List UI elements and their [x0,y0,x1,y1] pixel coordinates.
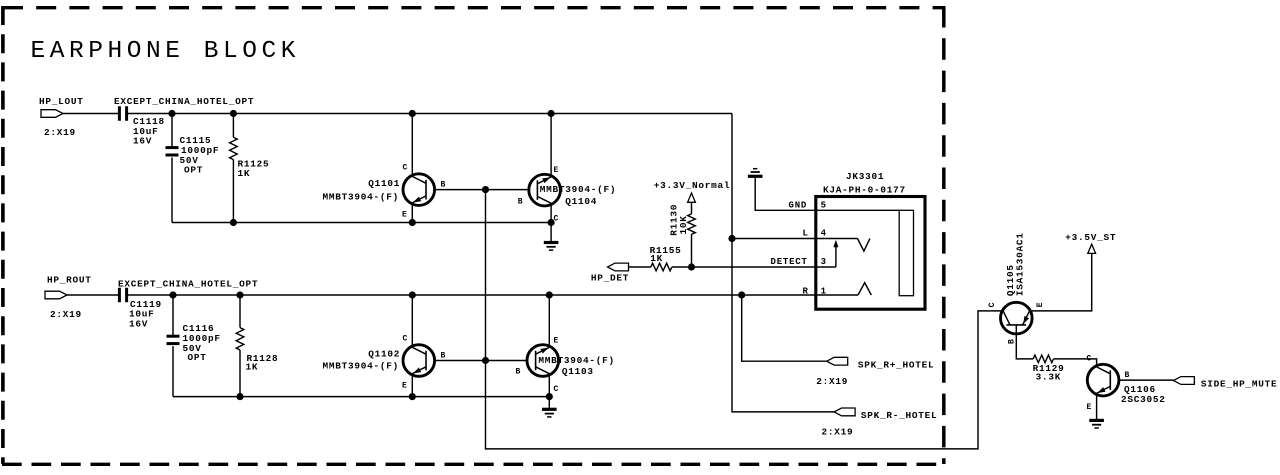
svg-text:OPT: OPT [188,352,207,363]
node junction bottom rail / Q1103 C [546,393,553,400]
node junction bottom rail / Q1101 E [409,219,416,226]
svg-text:JK3301: JK3301 [846,171,884,182]
svg-text:E: E [1087,403,1092,412]
node junction lower rail / R1128 [236,291,243,298]
port SPK_R-_HOTEL [822,408,938,437]
dashed block border left [1,6,5,464]
svg-text:L: L [803,229,809,239]
pin label C Q1104 [554,215,559,224]
pin label C Q1106 [1087,355,1092,364]
power +3.3V_Normal [654,180,731,203]
node junction lower rail / Q1103 E [546,291,553,298]
wire Q1103 emitter [548,295,550,347]
svg-text:Q1102: Q1102 [368,349,400,360]
svg-text:R: R [803,287,809,297]
capacitor C1116 [167,323,221,363]
svg-text:SPK_R-_HOTEL: SPK_R-_HOTEL [861,410,938,421]
svg-text:EARPHONE BLOCK: EARPHONE BLOCK [31,38,301,65]
transistor Q1105 [1001,302,1033,334]
value MMBT3904-(F) Q1103 [538,355,615,366]
pin number 1 [821,287,827,297]
node junction bases top [482,186,489,193]
svg-text:SIDE_HP_MUTE: SIDE_HP_MUTE [1201,378,1278,389]
value 2SC3052 Q1106 [1121,394,1166,405]
pin label B Q1102 [441,352,446,361]
node junction lower rail / C1116 [169,291,176,298]
wire C1115 branch [171,114,173,223]
svg-text:4: 4 [821,229,827,239]
node junction lower rail / Q1102 C [409,291,416,298]
net label EXCEPT_CHINA_HOTEL_OPT (top) [114,96,254,107]
svg-text:MMBT3904-(F): MMBT3904-(F) [323,361,400,372]
wire Q1102 collector [411,295,413,348]
svg-text:B: B [441,181,446,190]
svg-text:+3.3V_Normal: +3.3V_Normal [654,180,731,191]
svg-text:Q1101: Q1101 [368,178,400,189]
resistor R1125 [230,114,270,223]
wire L to jack pin 4 [732,238,858,240]
pin number 3 [821,257,827,267]
pin label E Q1105 [1036,302,1045,307]
svg-text:16V: 16V [133,135,152,146]
svg-text:B: B [518,198,523,207]
node junction bottom rail / R1128 [236,393,243,400]
node junction lower rail / SPK_R+ [738,291,745,298]
svg-text:3.3K: 3.3K [1036,371,1062,382]
ground above jack GND [748,169,763,177]
power +3.5V_ST [1065,232,1116,254]
wire HP_ROUT to C1119 [67,294,118,296]
label Q1101 [368,178,400,189]
dashed block border top [3,6,945,9]
dashed block border right [942,6,946,464]
label JK3301 [846,171,884,182]
svg-text:1K: 1K [246,362,259,373]
svg-text:DETECT: DETECT [771,257,808,267]
svg-text:EXCEPT_CHINA_HOTEL_OPT: EXCEPT_CHINA_HOTEL_OPT [114,96,254,107]
wire R1155 to jack pin 3 [672,266,836,268]
node junction top rail / Q1101 C [409,110,416,117]
value KJA-PH-0-0177 [823,185,906,196]
pin label C Q1105 [988,302,997,307]
svg-text:HP_LOUT: HP_LOUT [39,96,84,107]
label Q1102 [368,349,400,360]
svg-text:E: E [402,211,407,220]
label Q1106 [1124,384,1156,395]
svg-text:B: B [441,352,446,361]
svg-text:5: 5 [821,201,827,211]
resistor R1129 [1033,355,1065,382]
svg-text:C: C [1087,355,1092,364]
node junction L branch [728,235,735,242]
svg-text:C: C [988,302,997,307]
transistor Q1106 [1087,364,1119,396]
svg-text:B: B [1125,371,1130,380]
wire Q1101 emitter [411,203,413,223]
wire Q1101 collector [411,114,413,177]
svg-text:Q1103: Q1103 [562,366,594,377]
svg-text:2SC3052: 2SC3052 [1121,394,1166,405]
pin number 5 [821,201,827,211]
node junction bottom rail / R1125 [230,219,237,226]
wire Q1101 base to Q1104 base [435,189,528,191]
pin label B Q1103 [516,368,521,377]
svg-text:10K: 10K [678,215,689,234]
node junction bases bottom [482,357,489,364]
svg-text:B: B [1008,339,1017,344]
wire top channel bottom rail [172,222,551,224]
svg-text:1K: 1K [650,253,663,264]
value ISA1530AC1 Q1105 [1014,232,1025,296]
svg-text:MMBT3904-(F): MMBT3904-(F) [538,355,615,366]
svg-text:HP_DET: HP_DET [591,272,629,283]
net label EXCEPT_CHINA_HOTEL_OPT (bottom) [118,278,258,289]
wire lower rail [128,294,816,296]
port SPK_R+_HOTEL [816,357,934,387]
value MMBT3904-(F) Q1104 [540,184,617,195]
jack sleeve bar [899,210,913,295]
pin label B Q1106 [1125,371,1130,380]
transistor Q1101 [403,174,435,206]
node junction DETECT / R1130 [688,263,695,270]
pin label B Q1105 [1008,339,1017,344]
svg-text:B: B [516,368,521,377]
node junction top rail / R1125 [230,110,237,117]
wire HP_DET to R1155 [629,266,651,268]
svg-text:16V: 16V [129,319,148,330]
wire lower channel bottom rail [173,396,549,398]
wire Q1106 emitter [1096,393,1098,420]
pin label E Q1102 [402,382,407,391]
svg-text:E: E [402,382,407,391]
port HP_DET [591,263,629,283]
svg-text:2:X19: 2:X19 [822,426,854,437]
svg-text:3: 3 [821,257,827,267]
pin label E Q1106 [1087,403,1092,412]
capacitor C1115 [166,135,220,176]
svg-text:C: C [403,164,408,173]
svg-text:2:X19: 2:X19 [816,376,848,387]
pin label E Q1104 [554,166,559,175]
pin label C Q1101 [403,164,408,173]
svg-text:MMBT3904-(F): MMBT3904-(F) [323,191,400,202]
pin label B Q1104 [518,198,523,207]
wire Q1102 base to Q1103 base [435,360,528,362]
svg-text:E: E [1036,302,1045,307]
svg-text:SPK_R+_HOTEL: SPK_R+_HOTEL [858,360,935,371]
wire Q1105 base [1016,325,1033,359]
capacitor C1119 [119,288,161,330]
pin label DETECT [771,257,808,267]
title EARPHONE BLOCK [31,38,301,65]
port HP_ROUT [45,275,92,321]
dashed block border bottom [2,463,945,466]
wire Q1105 emitter to +3.5V [1030,253,1092,311]
pin number 4 [821,229,827,239]
svg-text:KJA-PH-0-0177: KJA-PH-0-0177 [823,185,906,196]
pin label E Q1103 [554,337,559,346]
svg-text:+3.5V_ST: +3.5V_ST [1065,232,1116,243]
svg-text:MMBT3904-(F): MMBT3904-(F) [540,184,617,195]
wire Q1106 base to SIDE_HP_MUTE [1119,379,1173,381]
svg-text:C: C [554,385,559,394]
transistor Q1102 [403,345,435,377]
ground below Q1104 [544,243,559,251]
port SIDE_HP_MUTE [1173,377,1277,390]
jack detect switch arrow [833,240,838,267]
svg-text:Q1104: Q1104 [565,196,597,207]
node junction bottom rail / Q1104 C [548,219,555,226]
svg-text:GND: GND [789,201,808,211]
svg-text:1K: 1K [238,168,251,179]
wire R1129 to Q1106 collector [1054,359,1097,365]
transistor Q1104 [529,174,561,206]
connector JK3301 box [816,197,925,310]
svg-text:2:X19: 2:X19 [50,309,82,320]
svg-text:C: C [403,335,408,344]
label Q1103 [562,366,594,377]
svg-text:E: E [554,337,559,346]
svg-text:OPT: OPT [184,165,203,176]
capacitor C1118 [119,106,164,146]
pin label E Q1101 [402,211,407,220]
label Q1104 [565,196,597,207]
node junction bottom rail / Q1102 E [409,393,416,400]
resistor R1155 [650,245,682,271]
node junction top rail / Q1104 E [548,110,555,117]
svg-text:EXCEPT_CHINA_HOTEL_OPT: EXCEPT_CHINA_HOTEL_OPT [118,278,258,289]
wire Q1104 emitter [550,114,552,178]
wire Q1102 emitter [411,374,413,397]
port HP_LOUT [39,96,84,138]
wire top rail to SPK_R- [732,114,834,412]
wire Q1103 collector to ground [548,374,550,410]
resistor R1130 [669,202,696,267]
wire Q1104 collector to ground [550,203,552,242]
value MMBT3904-(F) Q1102 [323,361,400,372]
wire bases to Q1105 collector [486,190,1003,449]
pin label R [803,287,809,297]
resistor R1128 [236,295,278,397]
wire ground to jack pin 5 [755,176,899,210]
label Q1105 [1005,264,1016,296]
jack R tip contact [816,283,872,295]
pin label GND [789,201,808,211]
pin label B Q1101 [441,181,446,190]
wire C1116 branch [172,295,174,397]
svg-text:HP_ROUT: HP_ROUT [47,275,92,286]
pin label C Q1103 [554,385,559,394]
node junction top rail / C1115 [168,110,175,117]
wire top rail [128,113,732,115]
pin label L [803,229,809,239]
ground below Q1106 [1089,420,1104,428]
pin label C Q1102 [403,335,408,344]
wire SPK_R+ branch [742,295,827,361]
transistor Q1103 [527,345,559,377]
ground below Q1103 [542,409,557,417]
svg-text:ISA1530AC1: ISA1530AC1 [1014,232,1025,296]
wire HP_LOUT to C1118 [63,113,118,115]
svg-text:E: E [554,166,559,175]
svg-text:C: C [554,215,559,224]
jack L tip contact [858,239,870,252]
value MMBT3904-(F) Q1101 [323,191,400,202]
svg-text:2:X19: 2:X19 [44,127,76,138]
